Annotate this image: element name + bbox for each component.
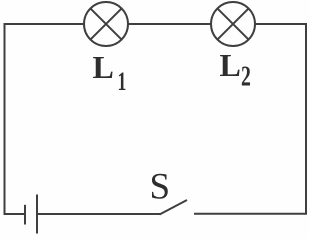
svg-text:L: L bbox=[220, 47, 241, 83]
wire bottom (right segment, from switch to bottom-right corner) bbox=[194, 213, 307, 215]
wire right side (top-right corner down to bottom-right corner) bbox=[305, 23, 307, 215]
wire top (right segment, from lamp L2 to top-right corner) bbox=[255, 23, 306, 25]
svg-text:L: L bbox=[93, 49, 114, 85]
battery cell: long positive plate bbox=[36, 195, 38, 234]
lamp L2 (circle with X) bbox=[211, 2, 255, 46]
wire bottom (middle segment, from battery to switch contact) bbox=[37, 213, 161, 215]
label L1 bbox=[93, 49, 127, 96]
lamp L1 (circle with X) bbox=[84, 2, 128, 46]
svg-text:S: S bbox=[150, 167, 171, 208]
svg-text:1: 1 bbox=[118, 67, 127, 96]
wire bottom (left segment, from bottom-left corner to battery) bbox=[4, 213, 26, 215]
wire top (middle segment, between lamp L1 and lamp L2) bbox=[128, 23, 211, 25]
svg-text:2: 2 bbox=[241, 61, 251, 93]
switch S lever arm (open) bbox=[160, 200, 188, 215]
battery cell: short negative plate bbox=[24, 205, 26, 225]
wire left side (top-left corner down to bottom-left corner) bbox=[4, 23, 6, 215]
wire top (left segment, from top-left corner to lamp L1) bbox=[5, 23, 85, 25]
label L2 bbox=[220, 47, 251, 93]
